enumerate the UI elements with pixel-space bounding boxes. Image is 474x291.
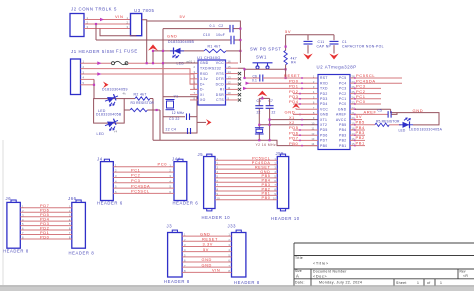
- LED D3: [104, 117, 121, 132]
- svg-text:AVCC: AVCC: [336, 118, 347, 122]
- wire C5 right: [391, 113, 397, 115]
- svg-text:C1: C1: [342, 40, 347, 44]
- svg-text:PC1: PC1: [339, 97, 347, 101]
- capacitor C8: [258, 98, 260, 105]
- pin numbers J3 right: [184, 233, 186, 273]
- svg-text:U1 CH340G: U1 CH340G: [197, 55, 221, 60]
- svg-text:PB3: PB3: [339, 133, 346, 137]
- wire U1 GND to left: [163, 62, 198, 64]
- wire XT1 row: [270, 119, 318, 121]
- wires J5 to J55: [215, 160, 277, 200]
- svg-text:PC2: PC2: [131, 173, 140, 178]
- wire R232 to reset vertical: [238, 68, 245, 78]
- svg-text:R1 4k7: R1 4k7: [208, 45, 221, 49]
- wire AREF row: [355, 113, 388, 115]
- svg-text:HEADER 8: HEADER 8: [164, 279, 190, 284]
- svg-text:22: 22: [272, 110, 276, 114]
- ic U2 left junction dots: [299, 77, 303, 146]
- svg-text:5V: 5V: [203, 247, 209, 252]
- wire R2 drop: [152, 99, 154, 141]
- svg-text:5V: 5V: [356, 114, 362, 119]
- ic U1 left pin numbers: [194, 60, 196, 101]
- wire RESET row to U2: [245, 77, 260, 79]
- wire XT2 row: [259, 124, 318, 126]
- svg-text:GND: GND: [202, 262, 212, 267]
- svg-text:PB0: PB0: [262, 196, 271, 200]
- wire J2 gnd drop: [95, 24, 97, 40]
- capacitor C4: [188, 128, 191, 134]
- junction R1-VCC: [239, 50, 241, 52]
- junction SW1 right: [285, 68, 287, 70]
- svg-text:C2: C2: [219, 24, 224, 28]
- svg-text:X1: X1: [289, 116, 295, 120]
- ic U2 right pin numbers: [352, 75, 356, 147]
- connector J5 HEADER 10: [207, 154, 212, 157]
- svg-text:AREF: AREF: [364, 109, 377, 114]
- wire gnd rail3: [96, 39, 230, 41]
- svg-text:<R: <R: [463, 274, 468, 278]
- svg-text:PB5: PB5: [262, 174, 271, 178]
- junction J2 pin2: [95, 23, 97, 25]
- wire PC0 row: [355, 103, 381, 105]
- wire Y1 gnd stub: [197, 121, 206, 123]
- junction R3: [156, 109, 158, 111]
- svg-text:22: 22: [257, 110, 261, 114]
- wire U3 ground U-loop: [100, 29, 136, 36]
- svg-text:PC0: PC0: [158, 161, 168, 166]
- wires J6 to J66: [20, 208, 72, 239]
- svg-text:PB4: PB4: [339, 128, 346, 132]
- connector J55 HEADER 10: [280, 154, 285, 157]
- wire J1 drop to led box: [93, 79, 95, 98]
- resistor R5: [375, 123, 389, 126]
- svg-text:CTS: CTS: [216, 98, 224, 102]
- svg-text:GND: GND: [285, 110, 296, 115]
- svg-text:F1 FUSE: F1 FUSE: [116, 49, 138, 54]
- svg-text:22 C4: 22 C4: [166, 127, 177, 131]
- svg-text:GND: GND: [167, 34, 177, 39]
- wire Y1 box: [163, 97, 197, 133]
- svg-text:J5: J5: [198, 152, 204, 157]
- svg-text:Rev: Rev: [460, 269, 466, 273]
- wire gnd loop right: [391, 109, 439, 125]
- svg-text:PB0: PB0: [320, 144, 327, 148]
- svg-text:CAPACITOR NON-POL: CAPACITOR NON-POL: [342, 45, 384, 49]
- wire 5V rail right: [286, 34, 334, 36]
- svg-text:Y2 16 MHz: Y2 16 MHz: [256, 143, 276, 147]
- wire C1 gnd stem: [333, 50, 335, 54]
- resistor R4: [284, 50, 287, 64]
- svg-text:PC5: PC5: [339, 76, 347, 80]
- svg-text:C10: C10: [203, 33, 210, 37]
- svg-text:10uF: 10uF: [216, 33, 225, 37]
- svg-text:J6: J6: [6, 196, 12, 201]
- svg-text:DTR: DTR: [216, 77, 224, 81]
- wire PC5 row: [355, 77, 402, 79]
- svg-text:PC4SDA: PC4SDA: [252, 161, 271, 165]
- capacitor C10: [231, 36, 234, 45]
- svg-text:RST: RST: [320, 76, 328, 80]
- wire PB3 stub: [355, 134, 365, 136]
- connector J66 HEADER 8: [76, 200, 81, 203]
- svg-text:VIN: VIN: [212, 268, 220, 273]
- resistor R2: [124, 98, 135, 100]
- svg-text:SW PB SPST: SW PB SPST: [250, 46, 282, 51]
- gnd arrow right Y1: [206, 119, 212, 126]
- junction VCC rail: [239, 39, 241, 41]
- svg-text:12 MHz: 12 MHz: [172, 111, 184, 115]
- wire J1-3 long D-: [81, 74, 199, 89]
- svg-text:HEADER 10: HEADER 10: [202, 215, 231, 220]
- LED D2: [104, 93, 121, 108]
- resistor R3: [124, 109, 130, 111]
- pin numbers J66 left: [69, 204, 71, 239]
- wire PC1 row: [355, 98, 381, 100]
- svg-text:C5: C5: [378, 109, 383, 113]
- svg-text:SW1: SW1: [256, 55, 267, 60]
- ic U1 right pin numbers: [228, 60, 232, 101]
- junction U1 gnd: [162, 62, 164, 64]
- svg-text:U2 ATmega328P: U2 ATmega328P: [317, 64, 357, 69]
- net flag arrow TXD: [243, 87, 247, 90]
- junction fuse-5V: [152, 62, 154, 64]
- svg-text:0.1: 0.1: [210, 24, 216, 28]
- title block frame: [294, 243, 474, 286]
- gnd arrow right at J1: [103, 82, 109, 89]
- svg-text:J4: J4: [97, 156, 103, 161]
- ic U1 right pin names: [216, 61, 225, 102]
- LED D4: [399, 118, 413, 128]
- svg-text:AREF: AREF: [336, 113, 346, 117]
- wire rail2 left vert: [162, 29, 164, 133]
- svg-text:GND: GND: [260, 170, 270, 174]
- switch SW1 pushbutton: [253, 63, 273, 69]
- wire LED D1 row: [153, 50, 204, 52]
- wire J2-1 to U3 net VIN: [84, 19, 131, 21]
- svg-text:PD4: PD4: [320, 102, 328, 106]
- wire U2 GND right row: [355, 108, 391, 110]
- wire gnd long bottom: [153, 140, 318, 145]
- svg-text:PD0: PD0: [40, 234, 50, 239]
- capacitor C7: [269, 98, 271, 105]
- svg-text:PC3: PC3: [131, 178, 140, 183]
- crystal Y2: [255, 128, 264, 134]
- svg-text:C11: C11: [318, 40, 325, 44]
- svg-text:HEADER 8: HEADER 8: [69, 250, 95, 255]
- svg-text:HEADER 10: HEADER 10: [271, 216, 300, 221]
- svg-text:GND: GND: [320, 113, 329, 117]
- svg-text:Document Number: Document Number: [313, 269, 347, 273]
- svg-text:PD5: PD5: [320, 128, 328, 132]
- junction Y2 tee: [261, 97, 263, 99]
- junction J1-5: [93, 84, 95, 86]
- capacitor C1: [333, 35, 335, 41]
- svg-text:Date:: Date:: [295, 281, 305, 285]
- svg-text:J1 HEADER 5/SM: J1 HEADER 5/SM: [71, 49, 114, 54]
- net flag arrow J1-1: [97, 61, 101, 65]
- connector J6 HEADER 8: [11, 200, 16, 203]
- connector J2 CONN TRBLK 5: [70, 14, 84, 37]
- wire Y2 arrow stem: [261, 96, 263, 98]
- wire C2 right lead: [233, 28, 240, 30]
- wire PC3 row: [355, 87, 381, 89]
- svg-text:PB1: PB1: [339, 144, 346, 148]
- ic U1 right pin stubs: [226, 63, 239, 100]
- svg-text:D-: D-: [200, 88, 204, 92]
- wire AVCC stub: [355, 119, 362, 121]
- svg-text:5V: 5V: [180, 14, 186, 19]
- pin numbers J6 right: [22, 204, 24, 239]
- junction XT2: [258, 124, 260, 126]
- svg-text:PD4: PD4: [289, 99, 299, 104]
- pin numbers J4 right: [115, 163, 117, 194]
- svg-text:D183330405B: D183330405B: [168, 40, 195, 44]
- svg-text:LED: LED: [97, 132, 105, 136]
- power symbol 5V arrow at fuse: [148, 44, 158, 50]
- svg-text:XI: XI: [200, 93, 204, 97]
- svg-text:Y4: Y4: [114, 130, 118, 134]
- svg-text:XT2: XT2: [320, 123, 327, 127]
- svg-text:PD7: PD7: [320, 139, 328, 143]
- svg-text:PC4SDA: PC4SDA: [131, 183, 150, 188]
- svg-text:R3 RESISTOR: R3 RESISTOR: [131, 101, 155, 105]
- svg-text:PB1: PB1: [356, 140, 366, 145]
- wire U2 gnd stub: [293, 113, 318, 115]
- wire J1-5 stub: [81, 84, 95, 86]
- ic U1 left pin names: [200, 61, 221, 102]
- connector J1 HEADER 5/SM: [71, 59, 81, 95]
- junction D1 row: [152, 50, 154, 52]
- net flag arrow J1-3: [97, 72, 101, 76]
- wire rail2 0.1uF branch: [163, 28, 229, 30]
- svg-text:5V: 5V: [285, 29, 291, 34]
- wire PB1 stub: [355, 145, 365, 147]
- svg-text:C8: C8: [257, 99, 262, 103]
- svg-text:DSR: DSR: [216, 93, 224, 97]
- wire PB2 stub: [355, 139, 365, 141]
- wire J2-3 to U3: [84, 28, 131, 30]
- pin numbers J55 left: [273, 157, 277, 201]
- svg-text:J2 CONN TRBLK 5: J2 CONN TRBLK 5: [71, 7, 117, 12]
- svg-text:of: of: [427, 281, 431, 285]
- ic U2 right pin stubs: [350, 78, 355, 146]
- wire 5V arrow stem: [152, 51, 154, 64]
- wire PC4 row: [355, 82, 402, 84]
- svg-text:PC0: PC0: [339, 102, 347, 106]
- svg-text:PC3: PC3: [339, 87, 347, 91]
- svg-text:DCD: DCD: [216, 82, 225, 86]
- gnd arrow C11: [303, 54, 313, 60]
- wire C11 gnd stem: [307, 50, 309, 54]
- svg-text:PB1: PB1: [262, 192, 271, 196]
- svg-text:R4: R4: [291, 60, 296, 64]
- power arrow Y2: [257, 91, 267, 97]
- svg-text:RTS: RTS: [216, 72, 224, 76]
- pin numbers J44 left: [169, 163, 171, 194]
- svg-text:<Doc>: <Doc>: [313, 274, 327, 278]
- svg-text:HEADER 6: HEADER 6: [173, 201, 199, 206]
- svg-text:PB3: PB3: [262, 183, 271, 187]
- crystal Y1: [166, 100, 175, 110]
- svg-text:R5 RESISTOR: R5 RESISTOR: [376, 119, 400, 123]
- svg-text:VCC: VCC: [216, 61, 224, 65]
- junction gnd bottom: [258, 139, 260, 141]
- svg-text:Size: Size: [295, 269, 302, 273]
- svg-text:PC2: PC2: [339, 92, 347, 96]
- wire J2-2 to U3: [84, 23, 131, 25]
- wire J1-4 stub: [81, 78, 95, 80]
- svg-text:CAP NP: CAP NP: [317, 45, 332, 49]
- svg-text:VIN: VIN: [115, 14, 123, 19]
- svg-text:RXD: RXD: [320, 81, 328, 85]
- svg-text:D+: D+: [200, 82, 205, 86]
- svg-text:C3 22: C3 22: [169, 117, 180, 121]
- svg-text:PC0: PC0: [356, 99, 366, 104]
- wire ATmega TXD long: [244, 87, 319, 89]
- ic U2 left pin names: [320, 76, 329, 148]
- capacitor C2: [230, 25, 233, 32]
- junction R4 top: [285, 46, 287, 48]
- svg-text:LEDD183330405A: LEDD183330405A: [409, 128, 443, 132]
- wire R5 to LED: [389, 124, 401, 126]
- regulator U3 7805 body: [131, 14, 142, 36]
- svg-text:R2 4k7: R2 4k7: [134, 92, 147, 96]
- svg-text:PD2: PD2: [320, 92, 328, 96]
- svg-text:PB4: PB4: [262, 179, 271, 183]
- connector J44 HEADER 6: [178, 159, 183, 162]
- wire SW1 row: [245, 68, 286, 70]
- svg-text:U3 7805: U3 7805: [134, 8, 154, 13]
- connector J4 HEADER 6: [104, 159, 109, 162]
- junction XT1: [269, 119, 271, 121]
- connector J33 HEADER 8: [236, 230, 241, 233]
- power arrow VCC U2: [292, 103, 300, 108]
- pin numbers J5 right: [217, 157, 221, 201]
- wire LED box loop: [94, 99, 125, 124]
- svg-text:<Title>: <Title>: [313, 261, 329, 265]
- svg-text:PC5SCL: PC5SCL: [131, 189, 150, 194]
- capacitor C11: [307, 35, 309, 41]
- wire PC2 row: [355, 93, 381, 95]
- net flag arrow RXD: [246, 82, 250, 85]
- ic U2 left pin numbers: [311, 75, 315, 147]
- svg-text:Monday, July 22, 2024: Monday, July 22, 2024: [319, 281, 362, 285]
- capacitor C6: [260, 75, 263, 82]
- svg-text:XT1: XT1: [320, 118, 327, 122]
- wire PB5 row: [355, 124, 375, 126]
- svg-text:RI: RI: [220, 88, 224, 92]
- capacitor C5: [388, 111, 391, 118]
- wire PB4 stub: [355, 129, 365, 131]
- wire J1-2 long D+: [81, 69, 199, 85]
- svg-text:PB2: PB2: [262, 187, 271, 191]
- svg-text:PD6: PD6: [320, 133, 328, 137]
- svg-text:PB0: PB0: [289, 141, 299, 146]
- capacitor C3: [163, 116, 185, 118]
- scrollbar bottom: [0, 286, 474, 291]
- ic U2 right pin names: [336, 76, 347, 148]
- svg-text:HEADER 8: HEADER 8: [3, 249, 29, 254]
- wire U1 VCC up to rail: [239, 40, 241, 63]
- svg-text:0.1: 0.1: [252, 79, 257, 83]
- ic U2 right junction dots: [354, 77, 356, 146]
- svg-text:RESET: RESET: [255, 165, 271, 169]
- svg-text:J66: J66: [68, 196, 77, 201]
- svg-text:VCC: VCC: [320, 107, 328, 111]
- wire U3 output to 5V rail: [142, 20, 147, 64]
- svg-text:TXD/RS232: TXD/RS232: [200, 66, 221, 70]
- svg-text:HEADER 8: HEADER 8: [234, 280, 260, 285]
- svg-text:1: 1: [417, 281, 419, 285]
- svg-text:PD3: PD3: [320, 97, 328, 101]
- junction RESET-R4: [285, 77, 287, 79]
- svg-text:D183330405B: D183330405B: [96, 112, 122, 116]
- svg-text:GND: GND: [413, 108, 424, 113]
- ic U1 CH340G body: [198, 60, 226, 105]
- no-connect X marks U1: [238, 72, 241, 102]
- svg-text:A: A: [296, 274, 299, 279]
- ic U2 left pin stubs: [293, 94, 318, 146]
- LED D1: [170, 48, 184, 58]
- ic U2 ATmega328P body: [318, 75, 350, 150]
- gnd arrow C1: [329, 54, 339, 60]
- svg-text:HEADER 6: HEADER 6: [97, 201, 123, 206]
- wire R3 drop: [159, 110, 161, 140]
- svg-text:J33: J33: [228, 223, 237, 228]
- svg-text:10: 10: [311, 121, 315, 125]
- pin numbers J33 left: [228, 233, 230, 273]
- ic U1 left pin stubs: [190, 74, 198, 100]
- svg-text:3.3v: 3.3v: [200, 77, 208, 81]
- wire fuse to node: [128, 62, 163, 64]
- svg-text:PC4: PC4: [339, 81, 347, 85]
- wire R4 top to 5V rail: [285, 35, 287, 51]
- junction RESET left: [243, 77, 245, 79]
- wire J1-1 to fuse: [81, 62, 112, 64]
- page left edge line: [2, 140, 4, 285]
- net flag VIN arrow: [100, 18, 104, 22]
- wire R1 to VCC drop: [226, 50, 240, 52]
- wires J4 to J44: [113, 167, 174, 194]
- svg-text:PC1: PC1: [131, 167, 140, 172]
- wires J3 to J33: [182, 236, 231, 272]
- wire U3 gnd pin stub: [135, 35, 137, 38]
- junction SW1 left: [243, 68, 245, 70]
- wire C10 right lead: [234, 39, 240, 41]
- svg-text:TXD: TXD: [320, 87, 328, 91]
- fuse F1 symbol: [112, 61, 129, 64]
- wire Y2 top tee: [259, 97, 269, 99]
- svg-text:Title: Title: [295, 256, 303, 260]
- resistor R1: [204, 49, 226, 52]
- svg-text:GND: GND: [200, 61, 209, 65]
- svg-text:XO: XO: [200, 98, 206, 102]
- svg-text:LED: LED: [399, 128, 406, 132]
- svg-text:1: 1: [440, 281, 442, 285]
- svg-text:4k: 4k: [123, 91, 127, 95]
- svg-text:GND: GND: [338, 107, 347, 111]
- wire ATmega RXD long: [247, 82, 319, 84]
- svg-text:PB2: PB2: [339, 139, 346, 143]
- wire R4 bottom to RESET: [285, 65, 287, 78]
- svg-text:Sheet: Sheet: [396, 281, 407, 285]
- wire 5V rail1: [147, 21, 241, 40]
- svg-text:RXD: RXD: [200, 72, 208, 76]
- svg-text:Y1: Y1: [174, 94, 179, 98]
- svg-text:PB5: PB5: [339, 123, 346, 127]
- connector J3 HEADER 8: [172, 230, 177, 233]
- svg-text:J3: J3: [167, 223, 173, 228]
